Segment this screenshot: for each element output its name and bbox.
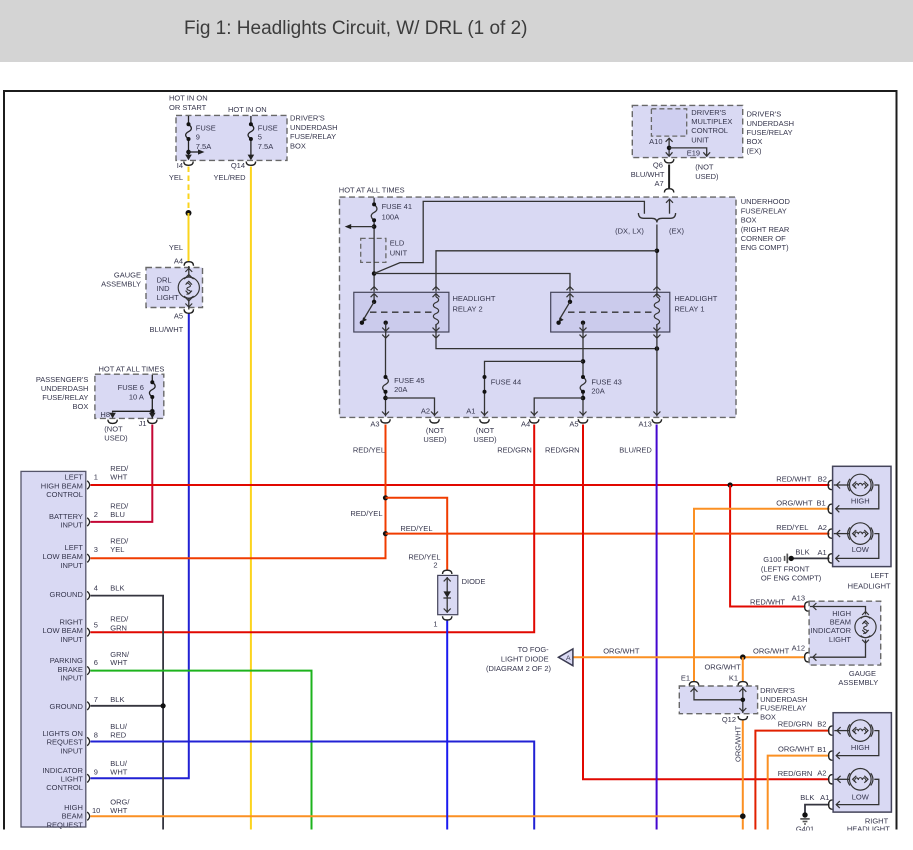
svg-text:USED): USED) [695, 172, 719, 181]
svg-text:UNDERDASH: UNDERDASH [760, 695, 808, 704]
wire relay 1 coil return down to A13 [656, 338, 658, 416]
svg-text:FUSE: FUSE [258, 123, 278, 132]
wire relay 2 coil return to A13 trunk [436, 338, 657, 349]
passenger's underdash fuse/relay box [36, 374, 164, 418]
svg-text:A4: A4 [521, 420, 530, 429]
junction relay coils feed [655, 249, 660, 254]
svg-text:J1: J1 [139, 419, 147, 428]
junction and left arrow on fuse 41 output [345, 224, 377, 229]
connector diode pin 1 (cup) [443, 616, 452, 620]
svg-text:RED/: RED/ [110, 501, 129, 510]
svg-text:BOX: BOX [73, 402, 89, 411]
connector A1 (cup) [480, 419, 489, 423]
svg-text:HOT AT ALL TIMES: HOT AT ALL TIMES [99, 365, 165, 374]
connector E1 (cup) [689, 682, 698, 686]
svg-text:BLK: BLK [795, 548, 809, 557]
ground label G100 [761, 555, 822, 582]
svg-text:UNIT: UNIT [691, 135, 709, 144]
svg-text:(NOT: (NOT [695, 162, 714, 171]
fuse 5 value label [258, 123, 278, 150]
svg-text:GAUGE: GAUGE [849, 669, 876, 678]
wire BLK pin 7 [90, 705, 163, 707]
diode box [438, 575, 486, 614]
svg-text:PASSENGER'S: PASSENGER'S [36, 375, 89, 384]
svg-text:UNDERDASH: UNDERDASH [41, 384, 89, 393]
wire RED/YEL A3 down [90, 425, 385, 559]
note (NOT USED) A2 [423, 426, 447, 444]
pin 3 labels LEFT LOW BEAM INPUT [42, 537, 129, 571]
svg-text:WHT: WHT [110, 806, 127, 815]
svg-text:(EX): (EX) [747, 146, 763, 155]
svg-text:BLU/WHT: BLU/WHT [631, 170, 665, 179]
wire RED/WHT branch to A13 indicator [730, 485, 805, 607]
wire RED/GRN A4 to pin 5 [90, 425, 534, 633]
wire BLU diode pin 1 down [446, 621, 448, 830]
svg-text:K1: K1 [729, 674, 738, 683]
svg-text:9: 9 [196, 133, 200, 142]
svg-text:ORG/WHT: ORG/WHT [734, 725, 743, 762]
svg-text:INDICATOR: INDICATOR [810, 626, 851, 635]
junction on YEL wire [186, 210, 192, 216]
svg-text:(DX, LX): (DX, LX) [615, 227, 644, 236]
svg-text:LIGHT DIODE: LIGHT DIODE [501, 655, 549, 664]
junction RED/YEL diode branch [383, 495, 388, 500]
wire RED/GRN A5 to right headlight A2 [583, 425, 830, 780]
wire YEL junction to A4 [188, 213, 190, 262]
connector A3 (cup) [381, 419, 390, 423]
wire BLK pin 4 down [90, 596, 163, 830]
svg-text:B1: B1 [817, 745, 826, 754]
driver's multiplex control unit box [632, 105, 742, 157]
svg-text:ASSEMBLY: ASSEMBLY [838, 678, 878, 687]
junction fuse 45 output / A2 branch [383, 396, 434, 417]
junction RED/WHT [728, 482, 733, 487]
exit arrows A3 A2 A1 A4 A5 A13 [382, 412, 660, 416]
svg-text:7.5A: 7.5A [196, 142, 211, 151]
fuse 6 value label [118, 383, 144, 401]
wire ORG/WHT right headlight B1 down [768, 756, 830, 830]
svg-text:RED/YEL: RED/YEL [400, 524, 432, 533]
svg-text:4: 4 [94, 584, 98, 593]
svg-text:BOX: BOX [741, 216, 757, 225]
svg-text:LIGHT: LIGHT [829, 635, 852, 644]
DRL IND LIGHT bulb [178, 266, 199, 310]
svg-text:OF ENG COMPT): OF ENG COMPT) [761, 574, 822, 583]
svg-text:PARKING: PARKING [50, 656, 83, 665]
svg-text:A5: A5 [569, 420, 578, 429]
svg-text:LOW: LOW [852, 545, 870, 554]
svg-text:RED: RED [110, 731, 126, 740]
svg-text:HEADLIGHT: HEADLIGHT [848, 581, 891, 590]
wire YEL/RED Q14 down [250, 167, 252, 830]
diode D1 internals [443, 577, 451, 613]
svg-text:LIGHT: LIGHT [157, 293, 180, 302]
svg-text:GAUGE: GAUGE [114, 270, 141, 279]
svg-text:DRIVER'S: DRIVER'S [691, 108, 726, 117]
svg-text:YEL: YEL [169, 173, 183, 182]
ELD unit box [361, 238, 408, 262]
pin 9 labels INDICATOR LIGHT CONTROL [42, 759, 128, 792]
fuse F44 (FUSE 44, empty) [483, 361, 584, 416]
left column control unit box [21, 471, 86, 827]
wire BLU/WHT Q6 to A7 [668, 165, 670, 189]
fuse 43 value label [591, 378, 621, 396]
label driver's underdash fuse/relay box (EX) [747, 110, 795, 156]
note (NOT USED) A1 [473, 426, 497, 444]
svg-text:G100: G100 [763, 555, 781, 564]
left column pin connectors (cups 1-10) [87, 481, 89, 821]
svg-text:INPUT: INPUT [60, 746, 83, 755]
svg-text:FUSE/RELAY: FUSE/RELAY [42, 393, 88, 402]
svg-text:BOX: BOX [747, 137, 763, 146]
svg-text:(NOT: (NOT [104, 424, 123, 433]
svg-text:RELAY 1: RELAY 1 [674, 304, 704, 313]
svg-text:WHT: WHT [110, 473, 127, 482]
wire RED/YEL branch to diode pin 2 [386, 498, 448, 571]
wire BLK left headlight A1 to G100 [793, 557, 830, 559]
svg-text:7.5A: 7.5A [258, 142, 273, 151]
svg-text:A10: A10 [649, 137, 662, 146]
fuse 9 value label [196, 123, 216, 150]
right headlight box [833, 713, 891, 834]
high beam indicator light box (gauge assembly) [809, 601, 881, 687]
svg-text:BOX: BOX [760, 712, 776, 721]
junction RED/YEL headlight branch [383, 531, 388, 536]
pin 1 labels LEFT HIGH BEAM CONTROL [41, 464, 129, 499]
connector Q6 (cup) [664, 159, 673, 163]
svg-text:20A: 20A [394, 385, 407, 394]
svg-text:ENG COMPT): ENG COMPT) [741, 243, 789, 252]
svg-text:5: 5 [94, 620, 98, 629]
svg-text:I4: I4 [177, 161, 183, 170]
svg-text:RED/GRN: RED/GRN [497, 446, 532, 455]
svg-text:BLU/WHT: BLU/WHT [150, 325, 184, 334]
fuse F5 (FUSE 5 7.5A) [248, 116, 254, 159]
svg-text:BLU: BLU [110, 510, 125, 519]
svg-text:RELAY 2: RELAY 2 [453, 304, 483, 313]
fuse F45 (FUSE 45 20A) [383, 375, 389, 416]
svg-text:BLK: BLK [800, 793, 814, 802]
svg-text:UNDERDASH: UNDERDASH [290, 123, 338, 132]
junction and branch arrow on fuse 9 output [186, 149, 204, 154]
svg-text:FUSE 6: FUSE 6 [118, 383, 144, 392]
svg-text:RED/YEL: RED/YEL [353, 446, 385, 455]
junction fuse 44 feed [581, 359, 586, 364]
wire EX trunk down [656, 225, 658, 297]
svg-text:REQUEST: REQUEST [47, 820, 84, 829]
svg-text:HOT AT ALL TIMES: HOT AT ALL TIMES [339, 185, 405, 194]
svg-text:CORNER OF: CORNER OF [741, 234, 786, 243]
svg-text:A12: A12 [792, 643, 805, 652]
underhood fuse/relay box [340, 197, 791, 417]
svg-text:A1: A1 [818, 548, 827, 557]
right headlight HIGH bulb [834, 720, 879, 759]
svg-text:100A: 100A [382, 213, 400, 222]
junction and H8 branch [109, 409, 154, 418]
svg-text:CONTROL: CONTROL [46, 490, 83, 499]
svg-text:UNDERHOOD: UNDERHOOD [741, 197, 791, 206]
wire ORG/WHT left headlight B1 to E1 [694, 509, 830, 681]
svg-text:HIGH: HIGH [851, 496, 870, 505]
svg-text:WHT: WHT [110, 768, 127, 777]
svg-text:DRIVER'S: DRIVER'S [747, 110, 782, 119]
svg-text:TO FOG-: TO FOG- [518, 645, 550, 654]
note (NOT USED) H8 [104, 424, 128, 442]
svg-text:10: 10 [92, 806, 100, 815]
connector Q14 (arrow + cup) [246, 155, 255, 166]
svg-text:RED/GRN: RED/GRN [778, 769, 813, 778]
svg-text:HEADLIGHT: HEADLIGHT [453, 294, 496, 303]
svg-text:CONTROL: CONTROL [46, 783, 83, 792]
bottom crop mask [0, 831, 913, 850]
svg-text:A2: A2 [817, 769, 826, 778]
left headlight box [833, 466, 891, 590]
svg-text:LOW BEAM: LOW BEAM [42, 626, 82, 635]
pin 4 labels GROUND [50, 584, 125, 599]
svg-text:8: 8 [94, 731, 98, 740]
title bar [0, 0, 913, 62]
fuse F6 (FUSE 6 10A) [149, 375, 155, 419]
wire BLU/RED A13 down [656, 425, 658, 830]
svg-text:Q12: Q12 [722, 715, 736, 724]
svg-text:YEL: YEL [110, 545, 124, 554]
svg-text:FUSE: FUSE [196, 123, 216, 132]
svg-text:ORG/WHT: ORG/WHT [704, 662, 741, 671]
svg-text:(LEFT FRONT: (LEFT FRONT [761, 564, 810, 573]
svg-text:BLK: BLK [110, 695, 124, 704]
wire GRN/WHT pin 6 down [90, 671, 311, 830]
wire BLU/RED pin 8 down [90, 742, 534, 830]
brace DX,LX / EX merge [638, 213, 675, 223]
svg-text:ASSEMBLY: ASSEMBLY [101, 279, 141, 288]
connector H8 (cup) [108, 420, 117, 424]
svg-text:A1: A1 [466, 406, 475, 415]
connector A4 gauge (cup) [184, 262, 193, 266]
svg-text:5: 5 [258, 133, 262, 142]
svg-text:LOW: LOW [852, 793, 870, 802]
svg-text:DRIVER'S: DRIVER'S [760, 686, 795, 695]
fuse F41 (FUSE 41 100A) [371, 198, 377, 292]
svg-text:HIGH: HIGH [832, 609, 851, 618]
relay 2 internals [360, 287, 440, 339]
svg-text:A13: A13 [792, 594, 805, 603]
connector A4 (cup) [530, 419, 539, 423]
svg-text:(NOT: (NOT [476, 426, 495, 435]
wire BLU/WHT A5 to pin 9 [90, 314, 188, 779]
svg-text:HOT IN ON: HOT IN ON [169, 94, 208, 103]
svg-text:BLU/RED: BLU/RED [619, 446, 652, 455]
connector A2 (cup) [430, 419, 439, 423]
node HOT IN ON OR START [169, 94, 208, 113]
svg-text:INPUT: INPUT [60, 674, 83, 683]
svg-text:FUSE 44: FUSE 44 [491, 378, 521, 387]
wire RED/YEL branch to left headlight A2 [386, 533, 830, 535]
wire ORG/WHT A12 to fog light diode [573, 656, 806, 658]
svg-text:A2: A2 [818, 523, 827, 532]
pin 8 labels LIGHTS ON REQUEST INPUT [42, 722, 127, 755]
svg-text:(NOT: (NOT [426, 426, 445, 435]
svg-text:1: 1 [433, 619, 437, 628]
E1/K1 box internal wiring [691, 687, 747, 713]
junction fuse 43 output / A4 branch [534, 396, 585, 417]
wire ORG/WHT Q12 down [742, 720, 744, 829]
svg-text:H8: H8 [100, 410, 110, 419]
svg-text:LEFT: LEFT [65, 543, 84, 552]
svg-text:B2: B2 [818, 474, 827, 483]
high beam indicator light internal wiring [810, 603, 866, 661]
svg-text:Q6: Q6 [653, 160, 663, 169]
svg-text:HOT IN ON: HOT IN ON [228, 105, 267, 114]
fuse F43 (FUSE 43 20A) [580, 375, 586, 416]
svg-text:Fig 1: Headlights Circuit, W/: Fig 1: Headlights Circuit, W/ DRL (1 of … [184, 18, 528, 39]
svg-text:CONTROL: CONTROL [691, 126, 728, 135]
wire ELD output to DX/LX leg [374, 201, 644, 273]
pin 7 labels GROUND [50, 695, 125, 711]
svg-text:BEAM: BEAM [62, 812, 83, 821]
connectors B2 B1 A2 A1 right headlight (cups) [829, 726, 833, 809]
svg-text:DRIVER'S: DRIVER'S [290, 114, 325, 123]
pin 5 labels RIGHT LOW BEAM INPUT [42, 615, 129, 644]
svg-text:UNIT: UNIT [390, 248, 408, 257]
gauge assembly box (DRL IND LIGHT) [101, 268, 202, 308]
wire RED/GRN right headlight B2 down [755, 731, 829, 830]
svg-text:A13: A13 [638, 420, 651, 429]
svg-text:HIGH: HIGH [851, 743, 870, 752]
connector Q6 exit arrow [666, 152, 673, 156]
svg-text:LIGHT: LIGHT [61, 775, 84, 784]
svg-text:UNDERDASH: UNDERDASH [747, 119, 795, 128]
svg-text:GROUND: GROUND [50, 590, 84, 599]
svg-text:INPUT: INPUT [60, 561, 83, 570]
svg-text:USED): USED) [104, 433, 128, 442]
svg-text:1: 1 [94, 473, 98, 482]
connector A7 (cup) [664, 189, 673, 193]
wire RED/BLU J1 to pin 2 [90, 425, 152, 522]
connectors B2 B1 A2 A1 left headlight (cups) [828, 480, 832, 563]
svg-text:A7: A7 [655, 179, 664, 188]
fog light diode arrow symbol A [558, 649, 573, 666]
fuse F9 (FUSE 9 7.5A) [186, 116, 192, 159]
svg-text:RED/WHT: RED/WHT [776, 474, 811, 483]
svg-text:RED/WHT: RED/WHT [750, 597, 785, 606]
multiplex unit internal wiring [666, 138, 707, 157]
ground G401 [800, 812, 809, 824]
svg-text:B2: B2 [817, 720, 826, 729]
svg-text:BOX: BOX [290, 142, 306, 151]
wire ELD output to relay 1 switch [374, 274, 570, 292]
wire relay 1 switch output down [582, 338, 584, 377]
svg-text:6: 6 [94, 658, 98, 667]
connector A12 gauge (cup) [805, 653, 809, 662]
svg-text:RED/GRN: RED/GRN [778, 720, 813, 729]
driver's underdash fuse/relay box (top left) [176, 114, 338, 161]
svg-text:FUSE 43: FUSE 43 [591, 378, 621, 387]
junction BLK ground [161, 703, 166, 708]
fuse 41 value label [382, 202, 412, 222]
svg-text:FUSE/RELAY: FUSE/RELAY [290, 132, 336, 141]
driver's underdash fuse/relay box (E1/K1) [679, 686, 807, 721]
wire relay 2 switch output to fuse 45 [385, 338, 387, 377]
headlight relay 2 box [354, 292, 496, 332]
connector A13 (cup) [652, 419, 661, 423]
svg-text:IND: IND [157, 284, 171, 293]
wire RED/WHT pin 1 to left headlight B2 [90, 484, 829, 486]
svg-text:LEFT: LEFT [870, 571, 889, 580]
svg-text:A3: A3 [370, 420, 379, 429]
svg-text:E19: E19 [687, 148, 700, 157]
svg-text:A1: A1 [820, 793, 829, 802]
svg-text:DRL: DRL [157, 275, 172, 284]
svg-text:2: 2 [94, 510, 98, 519]
svg-text:7: 7 [94, 695, 98, 704]
junction coil returns [655, 346, 660, 351]
svg-text:9: 9 [94, 768, 98, 777]
svg-text:ELD: ELD [390, 239, 405, 248]
svg-text:ORG/WHT: ORG/WHT [778, 744, 815, 753]
wire BLK right headlight A1 to G401 [805, 805, 830, 813]
svg-text:20A: 20A [591, 387, 604, 396]
svg-text:GRN: GRN [110, 623, 127, 632]
svg-text:WHT: WHT [110, 658, 127, 667]
left headlight LOW bulb [834, 523, 879, 562]
svg-text:RED/GRN: RED/GRN [545, 446, 580, 455]
svg-text:ORG/WHT: ORG/WHT [753, 647, 790, 656]
right headlight LOW bulb [834, 769, 879, 809]
wire YEL dashed I4 to junction [188, 167, 190, 214]
high beam indicator bulb [855, 612, 876, 644]
svg-text:DIODE: DIODE [462, 577, 486, 586]
svg-text:FUSE 45: FUSE 45 [394, 376, 424, 385]
svg-text:LOW BEAM: LOW BEAM [42, 552, 82, 561]
svg-text:REQUEST: REQUEST [47, 738, 84, 747]
svg-text:Q14: Q14 [231, 161, 245, 170]
svg-text:FUSE/RELAY: FUSE/RELAY [741, 206, 787, 215]
connector K1 (cup) [738, 682, 747, 686]
junction node below ELD [372, 271, 377, 276]
pin 6 labels PARKING BRAKE INPUT [50, 650, 130, 683]
svg-text:BEAM: BEAM [830, 618, 851, 627]
junction ORG/WHT pin10 [740, 813, 746, 819]
relay 1 internals [556, 287, 660, 339]
svg-text:3: 3 [94, 545, 98, 554]
connector E19 exit arrow [703, 152, 710, 156]
connector J1 (arrow + cup) [148, 413, 157, 424]
connector A13 gauge (cup) [805, 602, 809, 611]
fuse 45 value label [394, 376, 424, 394]
svg-text:FUSE/RELAY: FUSE/RELAY [747, 128, 793, 137]
connector A5 gauge (cup) [184, 309, 193, 313]
svg-text:RED/YEL: RED/YEL [350, 509, 382, 518]
svg-text:INPUT: INPUT [60, 635, 83, 644]
pin 2 labels BATTERY INPUT [49, 501, 129, 529]
svg-text:FUSE/RELAY: FUSE/RELAY [760, 704, 806, 713]
note (NOT USED) E19 [695, 162, 719, 181]
svg-text:(DIAGRAM 2 OF 2): (DIAGRAM 2 OF 2) [486, 664, 552, 673]
wire trunk to relay 2 coil [436, 251, 657, 292]
svg-text:HEADLIGHT: HEADLIGHT [674, 294, 717, 303]
connector Q12 (cup) [738, 716, 747, 720]
svg-text:INPUT: INPUT [60, 521, 83, 530]
svg-text:ORG/WHT: ORG/WHT [603, 647, 640, 656]
svg-text:LEFT: LEFT [65, 473, 84, 482]
connector A5 (cup) [578, 419, 587, 423]
pin 10 labels HIGH BEAM REQUEST [47, 797, 131, 829]
svg-text:YEL: YEL [169, 243, 183, 252]
junction ORG/WHT A12/K1 [740, 654, 746, 660]
svg-text:OR START: OR START [169, 103, 207, 112]
svg-text:RED/YEL: RED/YEL [776, 523, 808, 532]
left headlight HIGH bulb [834, 474, 879, 512]
